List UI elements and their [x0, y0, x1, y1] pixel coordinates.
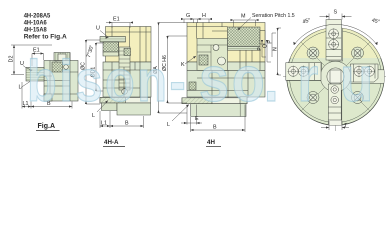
svg-text:E1: E1 — [113, 17, 120, 23]
svg-text:4H-10A6: 4H-10A6 — [24, 20, 47, 27]
svg-text:Fig.A: Fig.A — [38, 123, 56, 130]
svg-text:L: L — [167, 122, 170, 128]
4H body front green — [187, 62, 265, 97]
4H-A body front green — [103, 62, 151, 97]
center bore — [320, 61, 351, 92]
4H internal lines — [187, 23, 265, 98]
top jaw — [326, 20, 341, 60]
left jaw — [286, 63, 321, 81]
dimension S — [320, 14, 352, 20]
Fig.A internal lines — [44, 53, 78, 102]
dimension 45 deg arc — [294, 24, 377, 45]
dimension ØC H6 (4H) — [166, 36, 187, 103]
chuck rim inner circle — [290, 31, 382, 123]
4H jaw step right — [260, 31, 265, 45]
svg-text:r: r — [297, 43, 318, 116]
4H base plate — [182, 98, 247, 104]
model list text block — [24, 13, 67, 41]
4H body back (yellow) — [187, 23, 265, 63]
4H-A base plate — [100, 98, 151, 104]
Fig.A screw cross-section hatched — [52, 62, 63, 72]
Fig.A main body — [44, 61, 78, 102]
Fig.A top sub-block serrated — [54, 53, 70, 61]
svg-text:so: so — [199, 43, 268, 116]
svg-text:Serration Pitch 1.5: Serration Pitch 1.5 — [252, 13, 295, 19]
dimension L1 B (Fig.A) — [22, 82, 72, 109]
dimension ØA (4H) — [157, 23, 187, 114]
dimension E1 (4H-A) — [106, 21, 133, 28]
4H-A internal lines — [103, 27, 151, 98]
svg-text:4H-A: 4H-A — [104, 139, 119, 146]
4H-A jaw serration strip — [100, 37, 126, 43]
svg-text:bison-: bison- — [27, 50, 188, 114]
chuck yellow wash top — [286, 27, 386, 58]
svg-text:M: M — [241, 14, 246, 20]
svg-text:H: H — [202, 13, 206, 19]
svg-text:S: S — [334, 10, 338, 16]
4H jaw serration interface — [228, 47, 261, 51]
centerlines — [283, 22, 386, 131]
jaw slots — [286, 27, 385, 127]
svg-text:G: G — [186, 13, 190, 19]
4H-A body back (yellow) — [106, 27, 152, 63]
dimensions P O N (right of 4H) — [261, 28, 281, 75]
svg-text:u: u — [340, 43, 373, 116]
svg-text:.: . — [264, 43, 279, 116]
svg-text:4H-15A8: 4H-15A8 — [24, 27, 47, 34]
4H bottom-left screw — [189, 82, 196, 90]
4H jaw block hatched — [228, 27, 261, 47]
watermark — [27, 43, 373, 116]
bottom jaw — [328, 84, 341, 120]
operating screw sockets at 45 deg — [307, 47, 364, 104]
svg-text:4H-208A5: 4H-208A5 — [24, 13, 51, 20]
svg-text:Refer to Fig.A: Refer to Fig.A — [24, 34, 67, 41]
Fig.A jaw serration protrusion — [26, 68, 44, 82]
dimension ØD1 (4H-A) — [95, 43, 104, 91]
dimension E1 (Fig.A) — [32, 52, 44, 66]
svg-text:D2: D2 — [9, 56, 15, 63]
dimension D2 — [11, 45, 52, 75]
chuck face — [287, 28, 385, 126]
right jaw — [350, 64, 378, 82]
dimension ØC (4H-A) — [85, 40, 100, 104]
svg-text:B: B — [213, 125, 217, 131]
paper background — [0, 0, 386, 151]
svg-text:L1: L1 — [101, 121, 107, 127]
4H-A jaw block hatched — [103, 42, 119, 52]
dimension M (4H) — [231, 19, 259, 27]
4H-A foot — [102, 103, 118, 111]
dimension G H (4H) — [181, 18, 212, 23]
Fig.A bottom-left step — [44, 94, 52, 101]
dimension T — [321, 121, 349, 130]
svg-text:U: U — [96, 26, 100, 32]
4H master jaw detail — [197, 39, 228, 71]
dimension L1 B (4H-A) — [100, 111, 144, 128]
4H lower body — [191, 104, 246, 117]
svg-text:4H: 4H — [207, 139, 215, 146]
svg-text:E: E — [195, 116, 199, 122]
dimension E B (4H) — [181, 105, 245, 133]
4H-A wedge detail — [119, 47, 130, 90]
svg-text:B: B — [125, 121, 129, 127]
